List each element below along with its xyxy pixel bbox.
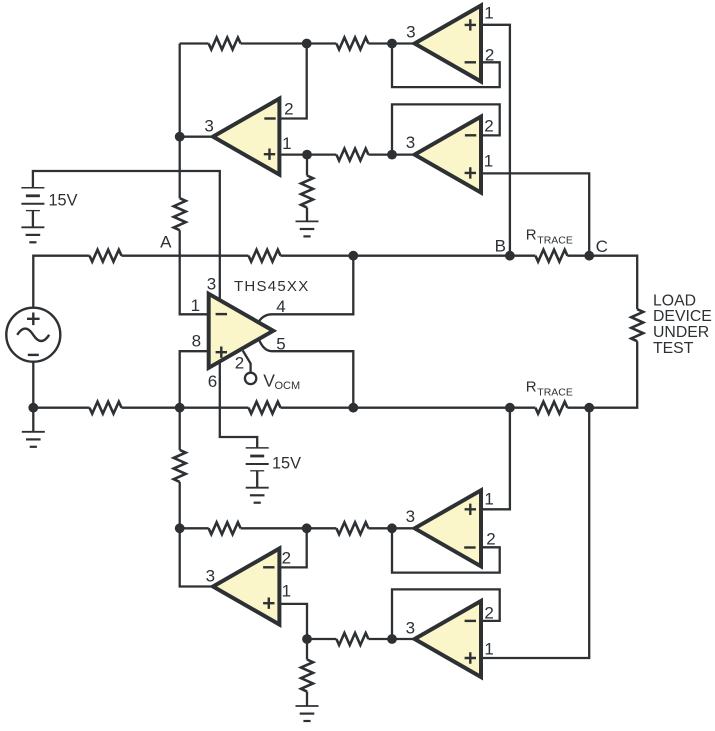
svg-text:2: 2 bbox=[485, 46, 494, 65]
svg-text:TRACE: TRACE bbox=[537, 387, 573, 399]
svg-text:3: 3 bbox=[406, 618, 415, 637]
svg-text:3: 3 bbox=[406, 507, 415, 526]
svg-text:TRACE: TRACE bbox=[537, 235, 573, 247]
svg-text:A: A bbox=[160, 233, 172, 252]
svg-text:3: 3 bbox=[207, 274, 216, 293]
svg-text:THS45XX: THS45XX bbox=[234, 278, 309, 295]
svg-text:2: 2 bbox=[484, 603, 493, 622]
svg-text:LOAD: LOAD bbox=[653, 293, 696, 310]
svg-text:15V: 15V bbox=[272, 454, 301, 472]
svg-text:1: 1 bbox=[484, 4, 493, 23]
svg-text:15V: 15V bbox=[49, 191, 78, 209]
svg-text:B: B bbox=[495, 236, 506, 255]
svg-text:1: 1 bbox=[282, 134, 291, 153]
svg-text:2: 2 bbox=[284, 100, 293, 119]
svg-text:2: 2 bbox=[282, 549, 291, 568]
svg-text:1: 1 bbox=[484, 639, 493, 658]
svg-text:3: 3 bbox=[406, 133, 415, 152]
svg-text:R: R bbox=[526, 379, 537, 396]
svg-text:6: 6 bbox=[208, 372, 217, 391]
svg-text:4: 4 bbox=[276, 297, 285, 316]
svg-text:DEVICE: DEVICE bbox=[653, 308, 712, 325]
svg-text:C: C bbox=[596, 237, 608, 256]
svg-text:1: 1 bbox=[191, 296, 200, 315]
svg-text:1: 1 bbox=[282, 581, 291, 600]
svg-text:3: 3 bbox=[206, 566, 215, 585]
svg-text:2: 2 bbox=[235, 354, 244, 373]
svg-text:5: 5 bbox=[276, 334, 285, 353]
svg-text:R: R bbox=[526, 227, 537, 244]
svg-text:V: V bbox=[263, 370, 275, 390]
svg-text:3: 3 bbox=[204, 117, 213, 136]
svg-text:UNDER: UNDER bbox=[653, 324, 709, 341]
svg-text:1: 1 bbox=[484, 151, 493, 170]
svg-text:2: 2 bbox=[484, 117, 493, 136]
svg-text:3: 3 bbox=[406, 22, 415, 41]
svg-text:2: 2 bbox=[486, 529, 495, 548]
svg-text:8: 8 bbox=[192, 331, 201, 350]
svg-text:OCM: OCM bbox=[275, 380, 301, 392]
svg-text:TEST: TEST bbox=[653, 340, 694, 357]
svg-text:1: 1 bbox=[484, 489, 493, 508]
